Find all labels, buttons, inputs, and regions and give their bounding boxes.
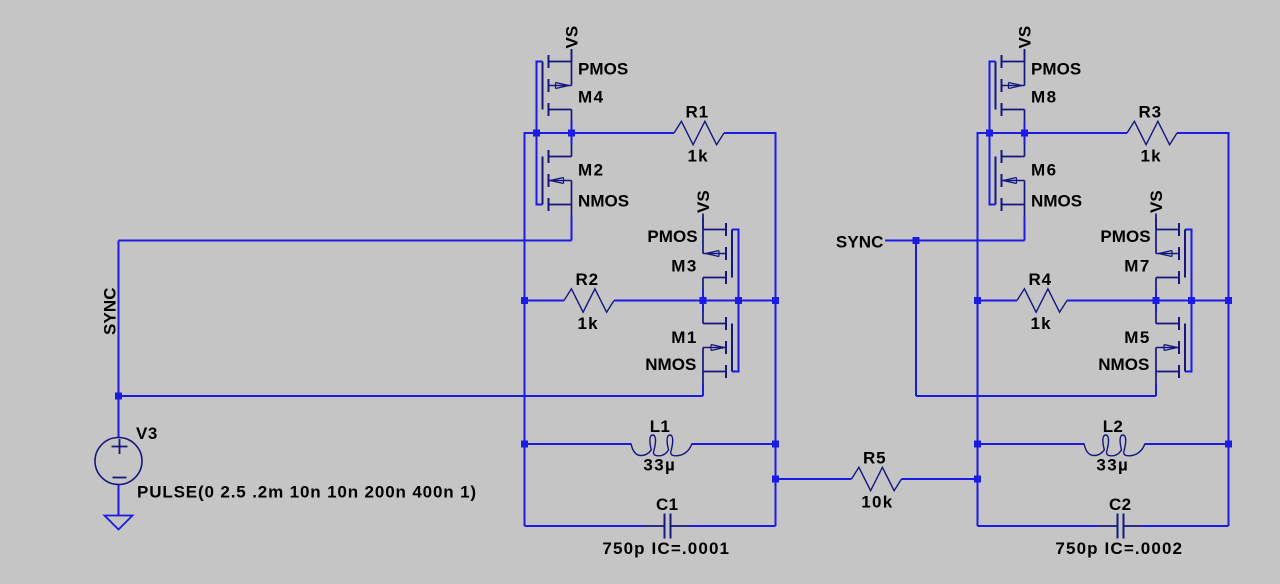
wire gate node to left vertical <box>978 133 1025 526</box>
svg-text:VS: VS <box>694 190 713 213</box>
resistor R2 <box>564 289 614 312</box>
wire bottom row to C1 <box>525 525 645 527</box>
wire L2 to right vertical <box>1145 443 1229 445</box>
svg-text:PMOS: PMOS <box>1031 59 1081 78</box>
wire inverter1 drain junction <box>571 122 573 145</box>
svg-text:VS: VS <box>1016 26 1035 49</box>
resistor R1 <box>674 121 724 144</box>
ground <box>105 516 133 530</box>
capacitor C1 <box>644 525 690 527</box>
capacitor C2 <box>1097 525 1143 527</box>
wire inverter1 drain junction <box>1024 122 1026 145</box>
svg-text:L2: L2 <box>1103 417 1123 436</box>
wire inverter2 source down <box>1155 384 1157 397</box>
wire left vertical to L1 <box>525 443 632 445</box>
svg-text:R5: R5 <box>863 448 886 467</box>
node gate junction <box>986 130 993 137</box>
wire SYNC row left <box>119 240 572 242</box>
node gate junction <box>533 130 540 137</box>
svg-text:C1: C1 <box>656 495 679 514</box>
wire C1 to right vertical <box>690 525 776 527</box>
svg-text:M6: M6 <box>1031 161 1058 180</box>
wire inverter2 drain node to right vertical <box>1156 300 1229 302</box>
transistor M3 (PMOS, mirrored) <box>703 218 732 290</box>
wire R4 to inverter2 <box>1067 300 1156 302</box>
svg-text:V3: V3 <box>136 424 158 443</box>
wire row to R2 <box>525 300 565 302</box>
node R5 left junction <box>772 476 779 483</box>
node inverter2 gate junction <box>735 297 742 304</box>
wire bottom row left <box>119 395 704 397</box>
wire row to R4 <box>978 300 1018 302</box>
wire V3 top <box>118 396 120 438</box>
svg-text:VS: VS <box>1147 190 1166 213</box>
power flag VS of M7 <box>1155 214 1157 230</box>
svg-text:750p IC=.0001: 750p IC=.0001 <box>602 539 730 558</box>
wire SYNC row right <box>916 240 1025 242</box>
transistor M7 (PMOS, mirrored) <box>1156 218 1185 290</box>
node inverter2 drain junction <box>700 297 707 304</box>
node R5 right junction <box>974 476 981 483</box>
wire left vertical to L2 <box>978 443 1085 445</box>
svg-text:M3: M3 <box>671 257 698 276</box>
node inverter2 gate junction <box>1188 297 1195 304</box>
wire SYNC vertical left <box>118 241 120 397</box>
node right vertical row2 junction <box>772 297 779 304</box>
svg-text:SYNC: SYNC <box>836 233 884 252</box>
svg-text:PMOS: PMOS <box>578 59 628 78</box>
power flag VS of M3 <box>702 214 704 230</box>
transistor M8 (PMOS) <box>996 50 1025 122</box>
svg-text:NMOS: NMOS <box>1031 192 1082 211</box>
inductor L2 <box>1084 435 1145 456</box>
wire R5 to right block <box>902 478 978 480</box>
svg-text:1k: 1k <box>578 314 599 333</box>
node L1 left junction <box>521 441 528 448</box>
node L2 right junction <box>1225 441 1232 448</box>
svg-text:1k: 1k <box>1031 314 1052 333</box>
svg-text:R1: R1 <box>686 102 709 121</box>
svg-text:PMOS: PMOS <box>1100 227 1150 246</box>
wire inverter2 drain junction <box>1155 290 1157 312</box>
svg-text:C2: C2 <box>1109 495 1132 514</box>
wire inverter1 gate line <box>990 62 996 205</box>
node V3 top junction <box>115 393 122 400</box>
wire drain node to R1 <box>572 132 675 134</box>
wire M source down <box>571 217 573 241</box>
wire inverter2 drain junction <box>702 290 704 312</box>
svg-text:1k: 1k <box>688 146 709 165</box>
svg-text:M1: M1 <box>671 328 698 347</box>
svg-text:1k: 1k <box>1141 146 1162 165</box>
power flag VS of M4 <box>571 49 573 62</box>
transistor M5 (NMOS, mirrored) <box>1156 312 1185 384</box>
node drain junction <box>1021 130 1028 137</box>
wire R1 to right vertical <box>724 133 776 526</box>
voltage source V3 <box>95 438 142 485</box>
node inverter2 drain junction <box>1153 297 1160 304</box>
svg-text:33µ: 33µ <box>1096 456 1129 475</box>
transistor M4 (PMOS) <box>543 50 572 122</box>
wire gate node to left vertical <box>525 133 572 526</box>
node L2 left junction <box>974 441 981 448</box>
node right vertical row2 junction <box>1225 297 1232 304</box>
wire inverter2 gate line <box>732 230 739 372</box>
svg-text:NMOS: NMOS <box>578 192 629 211</box>
wire drain node to R3 <box>1025 132 1128 134</box>
svg-text:750p IC=.0002: 750p IC=.0002 <box>1055 539 1183 558</box>
svg-text:10k: 10k <box>861 492 893 511</box>
node drain junction <box>568 130 575 137</box>
svg-text:M4: M4 <box>578 87 605 106</box>
wire bottom row to C2 <box>978 525 1098 527</box>
svg-text:NMOS: NMOS <box>645 355 696 374</box>
wire inverter1 gate line <box>537 62 543 205</box>
svg-text:R3: R3 <box>1139 102 1162 121</box>
svg-text:M8: M8 <box>1031 87 1058 106</box>
wire L1 to right vertical <box>692 443 776 445</box>
wire R2 to inverter2 <box>614 300 703 302</box>
svg-text:M7: M7 <box>1124 257 1151 276</box>
power flag VS of M8 <box>1024 49 1026 62</box>
inductor L1 <box>631 435 692 456</box>
wire left block to R5 <box>776 478 852 480</box>
wire inverter2 gate line <box>1185 230 1192 372</box>
transistor M2 (NMOS) <box>543 145 572 217</box>
svg-text:33µ: 33µ <box>643 456 676 475</box>
wire M source down <box>1024 217 1026 241</box>
svg-text:NMOS: NMOS <box>1098 355 1149 374</box>
transistor M6 (NMOS) <box>996 145 1025 217</box>
svg-text:R2: R2 <box>576 270 599 289</box>
svg-text:VS: VS <box>563 26 582 49</box>
wire inverter2 drain node to right vertical <box>703 300 776 302</box>
node L1 right junction <box>772 441 779 448</box>
transistor M1 (NMOS, mirrored) <box>703 312 732 384</box>
node R2 left junction <box>521 297 528 304</box>
svg-text:M5: M5 <box>1124 328 1151 347</box>
resistor R4 <box>1017 289 1067 312</box>
resistor R5 <box>852 467 902 490</box>
svg-text:M2: M2 <box>578 161 605 180</box>
wire bottom row right <box>916 395 1156 397</box>
wire inverter2 source down <box>702 384 704 397</box>
wire C2 to right vertical <box>1143 525 1229 527</box>
svg-text:R4: R4 <box>1029 270 1052 289</box>
wire V3 to ground <box>118 484 120 516</box>
svg-text:SYNC: SYNC <box>101 287 120 335</box>
node R4 left junction <box>974 297 981 304</box>
wire R3 to right vertical <box>1177 133 1229 526</box>
svg-text:L1: L1 <box>650 417 670 436</box>
wire SYNC label to node <box>885 240 916 242</box>
wire SYNC vertical right <box>915 241 917 397</box>
node SYNC junction right <box>913 237 920 244</box>
svg-text:PULSE(0 2.5 .2m 10n 10n 200n 4: PULSE(0 2.5 .2m 10n 10n 200n 400n 1) <box>137 483 477 502</box>
resistor R3 <box>1127 121 1177 144</box>
svg-text:PMOS: PMOS <box>647 227 697 246</box>
